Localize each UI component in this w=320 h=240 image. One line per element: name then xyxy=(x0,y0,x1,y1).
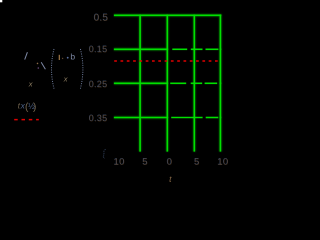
red dashed plot line xyxy=(114,60,218,63)
lone glyph at bottom of y axis xyxy=(103,149,105,158)
svg-text:5: 5 xyxy=(194,157,199,168)
svg-text:0.5: 0.5 xyxy=(94,13,109,24)
green grid core xyxy=(114,14,221,151)
svg-text:0.15: 0.15 xyxy=(89,45,108,55)
big right paren xyxy=(80,49,83,89)
vertical lines xyxy=(139,14,141,151)
svg-text:10: 10 xyxy=(114,157,125,168)
inner top: 1 + b xyxy=(58,55,60,60)
horizontal line 1 xyxy=(114,14,221,16)
legend label tx(1/2) xyxy=(18,101,37,113)
svg-text:10: 10 xyxy=(218,157,229,168)
svg-text:x: x xyxy=(63,75,68,84)
main formula xyxy=(25,49,83,89)
svg-text:0: 0 xyxy=(167,157,172,168)
horizontal line 2 (solid left, dashed right) xyxy=(114,48,168,50)
legend red dashed sample xyxy=(14,118,39,121)
svg-text:x: x xyxy=(28,80,33,89)
svg-text:): ) xyxy=(33,102,36,113)
LHS numeral 1 (slanted) xyxy=(25,52,28,59)
horizontal line 3 xyxy=(114,82,168,84)
approx dots xyxy=(37,63,39,65)
horizontal line 4 xyxy=(114,117,168,119)
svg-text:0.35: 0.35 xyxy=(89,114,108,124)
svg-text:b: b xyxy=(70,51,75,61)
white corner square xyxy=(0,0,2,2)
green grid glow underlay xyxy=(114,14,221,151)
x-axis tick labels xyxy=(113,157,229,168)
svg-text:0.25: 0.25 xyxy=(89,79,108,89)
svg-text:5: 5 xyxy=(143,157,148,168)
diagonal glyph xyxy=(41,62,45,69)
big left paren xyxy=(52,49,55,89)
y-axis tick labels xyxy=(89,13,109,159)
